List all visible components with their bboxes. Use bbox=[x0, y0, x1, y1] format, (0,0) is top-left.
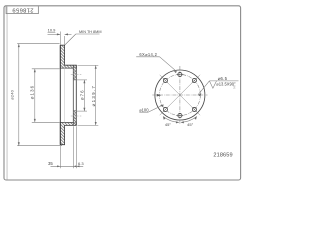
bolt circle radius arrow on horizontal centerline bbox=[157, 94, 162, 97]
wheel bolt hole upper (in flange) bbox=[71, 72, 82, 78]
svg-text:218659: 218659 bbox=[12, 7, 33, 13]
bolt hole lower-left bbox=[163, 107, 168, 112]
countersink label D6.5 / D13.5X90 with leader bbox=[198, 76, 239, 96]
bolt hole top bbox=[176, 72, 183, 76]
inner left frame line bbox=[6, 6, 8, 179]
10.9 text bbox=[48, 28, 57, 33]
svg-text:6.3: 6.3 bbox=[78, 161, 84, 166]
dimension 35 hat height bbox=[51, 126, 84, 168]
svg-text:45°: 45° bbox=[187, 122, 193, 127]
svg-text:45°: 45° bbox=[165, 122, 171, 127]
friction plate outer face line bbox=[59, 45, 61, 145]
45deg arc arrowheads bbox=[163, 116, 197, 123]
svg-text:⌀76: ⌀76 bbox=[79, 89, 84, 100]
friction plate lower cut + hat wall lower strip (hatched L) bbox=[60, 123, 76, 145]
bolt circle (dash-dot) bbox=[159, 75, 200, 116]
MIN TH 8MM note with leader bbox=[65, 30, 102, 45]
dimension D136 hat inner diameter bbox=[32, 69, 60, 123]
svg-text:35: 35 bbox=[48, 161, 53, 166]
svg-text:10.9: 10.9 bbox=[48, 28, 57, 33]
hub flange (vertical web, hatched above/below bore) bbox=[73, 65, 76, 125]
vertical centerline bbox=[179, 66, 181, 125]
svg-text:⌀136: ⌀136 bbox=[30, 85, 35, 99]
svg-text:⌀13.5X90°: ⌀13.5X90° bbox=[216, 82, 236, 87]
drawing border frame bbox=[4, 6, 241, 180]
horizontal centerline bbox=[152, 94, 207, 96]
SECTION VIEW bbox=[11, 28, 102, 169]
title tab box top-left bbox=[6, 6, 38, 13]
bolt hole upper-left bbox=[163, 78, 168, 83]
hub outline circle bbox=[155, 70, 205, 120]
svg-text:⌀139.7: ⌀139.7 bbox=[91, 85, 96, 106]
svg-text:⌀100: ⌀100 bbox=[139, 107, 149, 112]
diagonal centerline 135deg bbox=[160, 75, 200, 115]
bolt hole upper-right bbox=[192, 78, 197, 83]
wheel bolt hole lower (in flange) bbox=[71, 113, 82, 119]
dimension D76 centre bore bbox=[77, 80, 87, 111]
svg-text:⌀240: ⌀240 bbox=[11, 90, 15, 100]
label D100 bolt circle with leader bbox=[139, 105, 164, 113]
dimension D240 outer diameter bbox=[17, 44, 62, 146]
friction plate upper cut + hat wall upper strip (hatched L) bbox=[60, 45, 76, 68]
label 6X14.2 with leader bbox=[136, 52, 177, 73]
svg-text:MIN TH 8MM: MIN TH 8MM bbox=[79, 30, 102, 34]
bolt hole lower-right bbox=[192, 107, 197, 112]
svg-text:218659: 218659 bbox=[213, 152, 232, 158]
diagonal centerline 45deg bbox=[160, 75, 200, 115]
svg-text:6X⌀14,2: 6X⌀14,2 bbox=[139, 52, 157, 57]
friction plate inner face (light, behind hat) bbox=[64, 68, 66, 122]
dimension 10.9 disc thickness bbox=[48, 32, 72, 45]
FRONT VIEW bbox=[136, 52, 238, 127]
bolt hole bottom bbox=[176, 113, 183, 117]
dimension D139.7 flange diameter bbox=[78, 65, 99, 125]
svg-text:⌀6.5: ⌀6.5 bbox=[218, 76, 228, 81]
45deg dimension arcs bbox=[163, 117, 197, 123]
